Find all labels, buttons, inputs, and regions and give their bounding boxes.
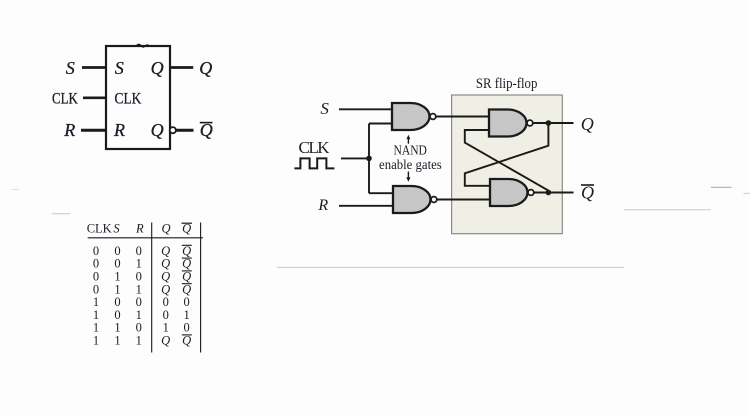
svg-text:Q: Q <box>151 58 164 78</box>
svg-text:S: S <box>113 222 120 236</box>
svg-text:R: R <box>63 120 75 140</box>
svg-text:Q: Q <box>200 120 213 140</box>
svg-text:Q: Q <box>581 114 594 134</box>
svg-text:CLK: CLK <box>299 138 331 157</box>
svg-text:Q: Q <box>199 58 212 78</box>
svg-text:1: 1 <box>114 334 120 348</box>
svg-text:Q: Q <box>151 120 164 140</box>
svg-text:1: 1 <box>136 334 142 348</box>
svg-text:R: R <box>317 197 328 214</box>
svg-text:enable gates: enable gates <box>379 157 442 172</box>
svg-text:S: S <box>115 58 124 78</box>
svg-text:1: 1 <box>163 321 169 335</box>
svg-text:R: R <box>135 222 144 236</box>
svg-text:CLK: CLK <box>87 222 112 236</box>
svg-text:0: 0 <box>183 321 189 335</box>
svg-text:S: S <box>320 99 329 118</box>
svg-text:R: R <box>113 120 125 140</box>
svg-text:S: S <box>66 58 75 78</box>
svg-text:CLK: CLK <box>115 91 142 108</box>
svg-text:CLK: CLK <box>52 91 78 108</box>
svg-text:Q: Q <box>182 334 191 348</box>
svg-text:Q: Q <box>161 222 170 236</box>
svg-text:NAND: NAND <box>393 143 427 158</box>
svg-text:Q: Q <box>182 222 191 236</box>
svg-text:1: 1 <box>93 334 99 348</box>
svg-text:Q: Q <box>161 334 170 348</box>
svg-text:SR flip-flop: SR flip-flop <box>476 76 538 92</box>
